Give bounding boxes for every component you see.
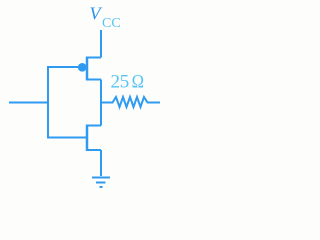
ground	[92, 178, 110, 188]
wire gate bus vertical	[47, 66, 49, 139]
wire Q2 gate	[48, 137, 86, 139]
bubble on Q1 gate	[78, 63, 87, 72]
wire Vcc supply vertical	[100, 30, 102, 58]
svg-text:Ω: Ω	[132, 71, 144, 92]
wire output node vertical	[100, 80, 102, 126]
wire Q2 source to ground	[100, 150, 102, 176]
transistor Q1 (upper PMOS)	[78, 57, 101, 81]
wire Q1 gate	[48, 66, 79, 68]
svg-text:25: 25	[111, 72, 129, 93]
node Vcc label	[90, 4, 121, 32]
transistor Q2 (lower NMOS)	[86, 125, 101, 152]
resistor R1 25 ohm	[101, 97, 160, 107]
svg-text:CC: CC	[102, 16, 121, 31]
wire input left	[9, 102, 49, 104]
